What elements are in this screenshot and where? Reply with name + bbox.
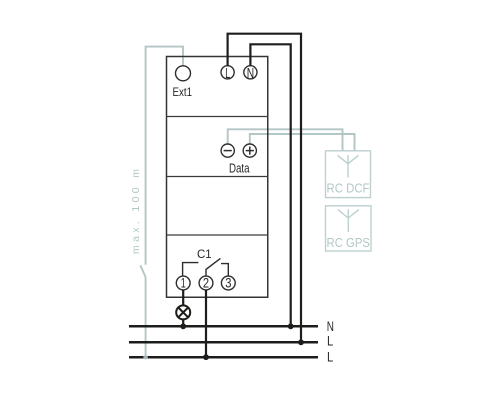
svg-text:max. 100 m: max. 100 m [130, 169, 142, 254]
relay contact C1 blade from terminal 2 [206, 258, 220, 276]
switched L bus [129, 356, 318, 359]
junction lamp on N bus [180, 323, 186, 329]
svg-text:1: 1 [181, 275, 186, 290]
junction terminal 2 wire on switched L bus [203, 354, 209, 360]
terminal L [221, 65, 234, 82]
wire terminal L to L bus [228, 34, 301, 343]
terminal 2 [199, 275, 213, 290]
svg-text:3: 3 [225, 275, 231, 290]
relay contact C1 fixed contact from terminal 1 [183, 263, 199, 277]
L bus [129, 341, 318, 344]
wire Data plus to RC DCF antenna [250, 134, 355, 151]
device section divider 3 [167, 234, 268, 236]
svg-text:Data: Data [229, 162, 250, 176]
terminal 1 [176, 275, 190, 290]
junction N wire on N bus [288, 323, 294, 329]
junction Ext1 wire on switched L bus [143, 355, 148, 360]
wire lamp to N bus [182, 319, 184, 326]
svg-text:N: N [247, 65, 254, 82]
terminal N [244, 65, 257, 82]
relay contact C1 fixed contact from terminal 3 [221, 264, 228, 276]
device section divider 2 [167, 176, 268, 178]
svg-text:RC GPS: RC GPS [327, 236, 371, 250]
device section divider 1 [167, 116, 268, 118]
device outline [167, 57, 268, 298]
svg-text:L: L [225, 65, 230, 82]
wire terminal 1 to lamp [182, 290, 184, 306]
svg-text:L: L [327, 332, 333, 348]
junction L wire on L bus [298, 339, 304, 345]
wire terminal 2 to switched L bus [205, 290, 207, 357]
svg-text:L: L [327, 348, 333, 364]
terminal Ext1 [176, 66, 191, 81]
wire Ext1 external input (max. 100 m) [140, 47, 183, 358]
terminal 3 [221, 275, 235, 290]
terminal Data plus [243, 144, 256, 157]
svg-text:C1: C1 [197, 247, 212, 261]
antenna module RC GPS [326, 206, 372, 251]
wire Data minus to RC DCF antenna [228, 129, 343, 151]
lamp [176, 305, 190, 319]
svg-text:2: 2 [203, 275, 209, 290]
N bus [129, 325, 318, 328]
svg-text:RC DCF: RC DCF [327, 182, 370, 196]
svg-text:Ext1: Ext1 [173, 85, 193, 99]
svg-text:N: N [327, 318, 334, 334]
terminal Data minus [221, 144, 234, 157]
antenna module RC DCF [326, 151, 371, 198]
wire terminal N to N bus [250, 44, 290, 326]
